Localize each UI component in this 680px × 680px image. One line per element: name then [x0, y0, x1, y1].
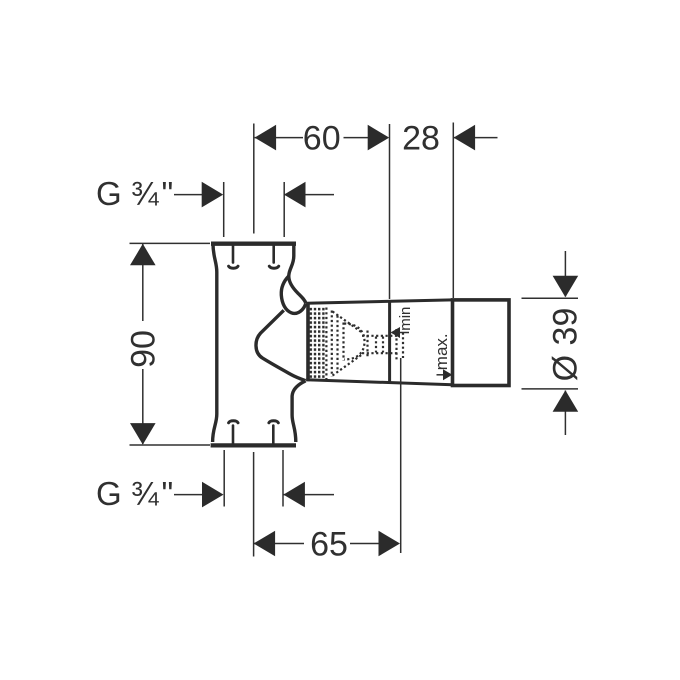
body top cap: [211, 242, 296, 246]
max indicator: [432, 333, 452, 380]
svg-text:max.: max.: [432, 333, 451, 370]
arrow G3/4 bottom left-pointing: [283, 482, 305, 508]
top clip prong right: [269, 246, 278, 269]
extension line center axis: [253, 124, 255, 234]
extension line min: [389, 124, 391, 299]
svg-text:G¾": G¾": [96, 175, 173, 212]
arrow dia39 up: [553, 390, 579, 412]
svg-text:60: 60: [303, 120, 341, 158]
top clip prong left: [229, 246, 238, 269]
svg-text:Ø 39: Ø 39: [547, 308, 585, 382]
arrow 65 left: [254, 531, 276, 557]
dotted cartridge interior: [326, 308, 403, 380]
svg-text:65: 65: [310, 526, 348, 564]
body bottom cap: [211, 443, 296, 447]
arrow 90 up: [130, 244, 156, 265]
min divider line: [388, 301, 391, 383]
arrow 90 down: [130, 423, 156, 445]
dimension diameter 39: [522, 251, 579, 435]
arrow 60 left: [255, 125, 277, 151]
bottom clip prong right: [269, 421, 278, 444]
valve body outline: [211, 244, 306, 446]
body left edge: [213, 244, 217, 442]
bottom clip prong left: [229, 421, 238, 444]
dotted thread block: [309, 308, 325, 380]
dimension 60/28 line segments: [255, 137, 498, 139]
svg-text:28: 28: [402, 120, 440, 158]
dim G3/4 top lines: [174, 182, 334, 237]
arrow 28 right: [454, 125, 476, 151]
svg-text:G¾": G¾": [96, 475, 173, 512]
arrow 65 right: [379, 531, 401, 557]
dimension 65: [254, 358, 401, 557]
dim G3/4 bottom lines: [174, 450, 334, 507]
svg-text:min: min: [397, 307, 414, 331]
body bulge cove: [256, 310, 306, 380]
svg-text:90: 90: [125, 330, 163, 368]
body right edge upper: [289, 244, 306, 303]
min indicator: [391, 307, 415, 338]
arrow 60 right: [368, 125, 390, 151]
arrow G3/4 top left-pointing: [284, 182, 306, 208]
body right edge lower: [292, 381, 306, 442]
arrow G3/4 bottom right-pointing: [202, 482, 224, 508]
spigot tapered section: [306, 300, 452, 385]
extension line max: [452, 123, 454, 299]
arrow dia39 down: [553, 276, 579, 298]
dimension 90: [130, 243, 211, 445]
cartridge cap rectangle: [453, 300, 510, 386]
teardrop loop: [281, 276, 305, 313]
arrow G3/4 top right-pointing: [202, 182, 224, 208]
